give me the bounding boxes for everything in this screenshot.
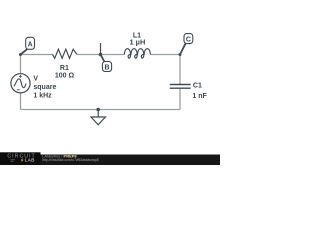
svg-text:square: square xyxy=(33,84,56,91)
svg-text:LAB: LAB xyxy=(25,158,36,163)
svg-text:http://circuitlab.com/c/7vf53a: http://circuitlab.com/c/7vf53asbasnwy8 xyxy=(42,158,99,162)
svg-text:R1: R1 xyxy=(60,65,69,72)
svg-text:C1: C1 xyxy=(193,82,202,89)
svg-text:V: V xyxy=(33,75,38,82)
svg-text:B: B xyxy=(104,64,109,71)
svg-text:1 kHz: 1 kHz xyxy=(33,93,52,100)
svg-text:C: C xyxy=(186,37,191,44)
svg-text:1 µH: 1 µH xyxy=(130,38,146,47)
svg-text:1 nF: 1 nF xyxy=(192,93,207,100)
svg-text:100 Ω: 100 Ω xyxy=(55,73,75,80)
svg-text:A: A xyxy=(28,41,33,48)
